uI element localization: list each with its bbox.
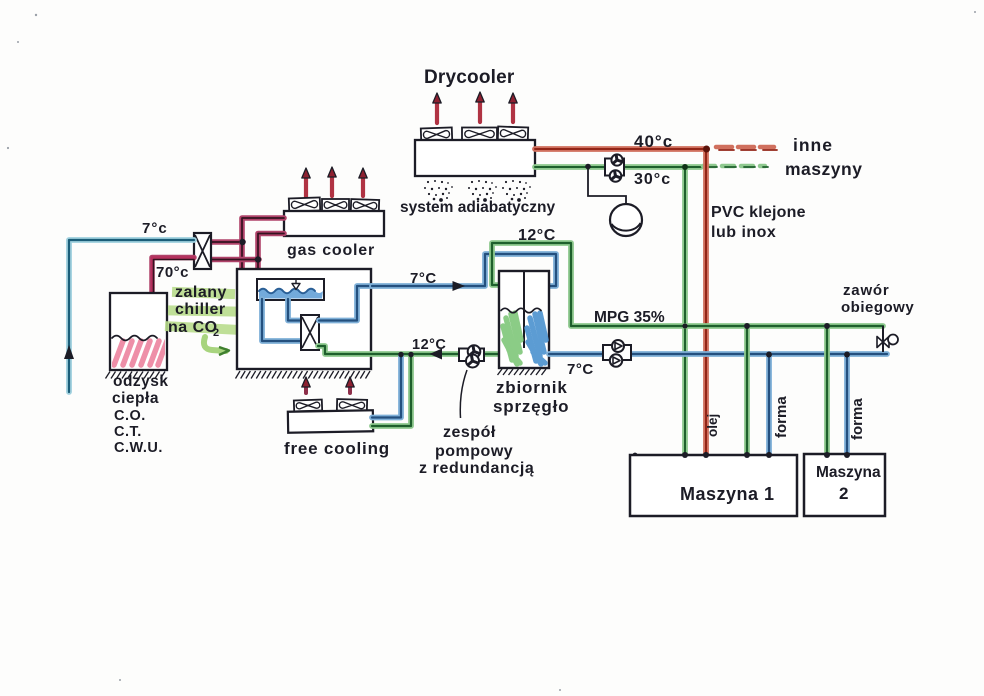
- heat recovery plate HX: [194, 233, 211, 269]
- svg-text:olej: olej: [705, 414, 720, 437]
- heat recovery tank (odzysk ciepla): [110, 293, 167, 370]
- pipe chiller tank to HX lower: [262, 299, 303, 341]
- pipe chiller HX outlet 7C: [319, 286, 372, 321]
- level marker: [292, 280, 300, 290]
- svg-text:forma: forma: [773, 396, 790, 438]
- buffer tank zbiornik sprzeglo: [499, 271, 549, 368]
- svg-text:forma: forma: [849, 398, 866, 440]
- gas cooler fan boxes: [289, 197, 379, 212]
- svg-text:obiegowy: obiegowy: [841, 299, 914, 316]
- pipe green drop Maszyna 1 forma: [744, 326, 750, 455]
- svg-text:zespół: zespół: [443, 424, 496, 441]
- svg-text:2: 2: [213, 327, 219, 339]
- svg-text:zawór: zawór: [843, 282, 890, 299]
- chiller internal HX: [301, 315, 319, 350]
- svg-text:Maszyna: Maszyna: [816, 464, 881, 481]
- junction node on 30C line: [585, 164, 591, 170]
- blue buffer fill: [527, 313, 546, 364]
- pipe green drop Maszyna 2: [824, 326, 830, 455]
- svg-text:Drycooler: Drycooler: [424, 67, 515, 88]
- pipe 40C red supply: [535, 146, 707, 152]
- pipe red olej vertical: [703, 149, 709, 455]
- svg-text:30°c: 30°c: [634, 171, 671, 188]
- flow arrow right on 7C: [453, 281, 466, 291]
- svg-text:odzysk: odzysk: [113, 373, 169, 390]
- svg-text:maszyny: maszyny: [785, 159, 862, 179]
- pipe CO2 HX to riser lower: [211, 257, 259, 263]
- bypass valve: [877, 326, 898, 352]
- pipe green vertical to Maszyna 1: [682, 167, 688, 455]
- svg-text:z redundancją: z redundancją: [419, 460, 534, 477]
- flow arrow left on 12C return: [430, 349, 443, 360]
- svg-text:zbiornik: zbiornik: [496, 378, 568, 397]
- drycooler unit body: [415, 140, 535, 176]
- svg-text:zalany: zalany: [175, 284, 227, 301]
- svg-text:70°c: 70°c: [156, 264, 189, 281]
- svg-text:lub inox: lub inox: [711, 224, 776, 241]
- svg-text:Maszyna 1: Maszyna 1: [680, 484, 775, 504]
- pipe heat recovery blue return: [69, 240, 194, 392]
- svg-text:MPG 35%: MPG 35%: [594, 309, 665, 326]
- free cooling body: [288, 410, 373, 432]
- drycooler fan air arrows: [433, 92, 517, 123]
- green arrow: [204, 337, 229, 355]
- twin pump on drycooler lines: [605, 154, 624, 181]
- ground hatch under chiller: [236, 371, 371, 379]
- svg-text:C.T.: C.T.: [114, 424, 142, 440]
- pipe 7C distribution blue line: [549, 351, 887, 357]
- chiller box: [237, 269, 371, 369]
- zalany chiller na CO2 note: [165, 287, 239, 335]
- pipe blue drop Maszyna 2: [844, 354, 850, 455]
- flow arrow up on blue return: [64, 345, 74, 359]
- svg-text:C.O.: C.O.: [114, 408, 146, 424]
- svg-text:na CO: na CO: [168, 319, 218, 336]
- svg-text:12°C: 12°C: [412, 337, 446, 353]
- expansion vessel: [588, 167, 642, 236]
- ground hatch under buffer tank: [498, 369, 547, 375]
- junction CO2 risers: [239, 239, 245, 245]
- gas cooler body: [284, 211, 384, 236]
- drycooler fan boxes: [421, 126, 528, 141]
- svg-text:chiller: chiller: [175, 301, 226, 318]
- pipe 30C green dashed continuation: [703, 166, 768, 167]
- free cooling air arrows: [302, 377, 354, 393]
- twin pump on distribution line: [603, 340, 631, 367]
- svg-text:ciepła: ciepła: [112, 390, 159, 407]
- svg-text:gas cooler: gas cooler: [287, 242, 375, 259]
- green buffer fill: [503, 313, 521, 364]
- pipe CO2 HX to riser upper: [211, 239, 243, 245]
- pipe CO2 riser to gas cooler bottom: [258, 234, 284, 270]
- pump group with redundancy: [459, 345, 484, 367]
- pipe 30C green return: [535, 164, 701, 170]
- pipe 12C MPG 35% green line: [492, 243, 883, 326]
- pipe 7C chiller to buffer tank: [372, 254, 556, 286]
- pipe free cooling green: [372, 355, 411, 426]
- Maszyna 1 box: [630, 455, 797, 516]
- pipe free cooling blue: [372, 355, 401, 418]
- free cooling fan boxes: [294, 399, 367, 411]
- chiller internal flooded evaporator tank: [257, 279, 324, 300]
- adiabatic spray dots: [424, 180, 531, 202]
- pipe 12C return to chiller: [318, 346, 499, 354]
- svg-text:pompowy: pompowy: [435, 443, 513, 460]
- pipe blue drop Maszyna 1 forma: [766, 354, 772, 455]
- gas cooler fan air arrows: [302, 167, 367, 197]
- pipe 40C red dashed continuation: [716, 147, 777, 150]
- svg-text:sprzęgło: sprzęgło: [493, 397, 569, 416]
- svg-text:7°C: 7°C: [567, 361, 594, 378]
- junction dots: [744, 323, 750, 329]
- pipe 70C to heat recovery tank: [152, 258, 194, 294]
- svg-text:40°c: 40°c: [634, 132, 673, 151]
- svg-text:7°c: 7°c: [142, 220, 168, 237]
- svg-text:free cooling: free cooling: [284, 439, 390, 458]
- pipe CO2 riser to gas cooler top: [242, 218, 284, 269]
- svg-text:12°C: 12°C: [518, 227, 556, 244]
- svg-text:2: 2: [839, 484, 848, 503]
- svg-text:inne: inne: [793, 135, 833, 155]
- ground hatch under tank: [106, 372, 166, 379]
- Maszyna 2 box: [804, 454, 885, 516]
- svg-text:7°C: 7°C: [410, 270, 437, 287]
- pipe chiller tank to HX upper: [288, 299, 302, 321]
- svg-text:PVC klejone: PVC klejone: [711, 204, 806, 221]
- pointer line to pump group: [460, 370, 467, 418]
- svg-text:system adiabatyczny: system adiabatyczny: [400, 199, 555, 216]
- svg-text:C.W.U.: C.W.U.: [114, 440, 163, 456]
